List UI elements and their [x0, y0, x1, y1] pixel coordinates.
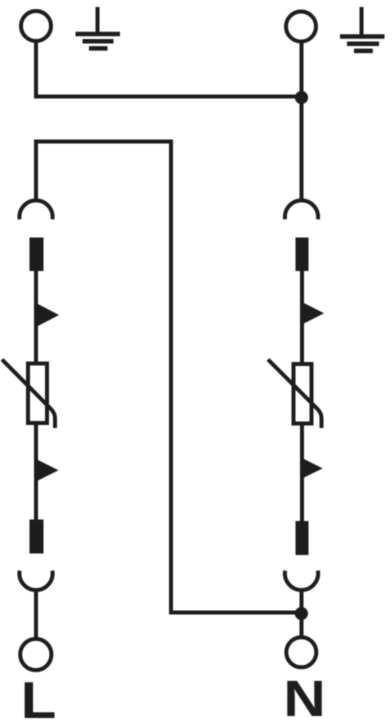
plug contact top right (dome) [285, 200, 318, 219]
contact blade bottom left [30, 520, 44, 554]
wire: varistor to lower blade left [34, 423, 38, 520]
terminal circle L [20, 639, 51, 670]
junction dot: bottom N node [295, 607, 308, 620]
wire: cup to N junction and N terminal [300, 590, 304, 637]
plug contact top left (dome) [19, 200, 52, 219]
disconnect indicator arrow left lower [37, 460, 59, 482]
varistor left body [28, 364, 47, 424]
ground symbol left [76, 7, 121, 48]
disconnect indicator arrow right lower [302, 458, 323, 479]
wire: blade to varistor left [34, 271, 38, 363]
contact blade top right [296, 238, 309, 272]
wire: right PE terminal down to top plug contact [300, 42, 304, 202]
disconnect indicator arrow left upper [37, 304, 59, 327]
terminal circle PE right [286, 12, 316, 42]
wire: cup to L terminal [34, 590, 38, 639]
wire: blade to varistor right [300, 271, 304, 363]
varistor left diagonal stroke [2, 360, 55, 429]
contact blade top left [30, 238, 44, 272]
contact blade bottom right [296, 521, 309, 555]
varistor right diagonal stroke [268, 360, 322, 429]
svg-text:L: L [21, 671, 57, 720]
terminal circle PE left [21, 11, 51, 41]
junction dot: PE bus at right column [295, 91, 308, 104]
plug contact bottom left (cup) [19, 571, 52, 590]
ground symbol right [340, 7, 385, 51]
disconnect indicator arrow right upper [302, 302, 324, 325]
svg-text:N: N [283, 670, 325, 720]
wire: left PE terminal down and across to right column [36, 41, 302, 97]
wire: varistor to lower blade right [300, 423, 304, 521]
wire: left arrester top routed to bottom N junction [36, 142, 302, 613]
terminal circle N [286, 637, 316, 667]
plug contact bottom right (cup) [285, 571, 318, 590]
varistor right body [294, 364, 312, 424]
